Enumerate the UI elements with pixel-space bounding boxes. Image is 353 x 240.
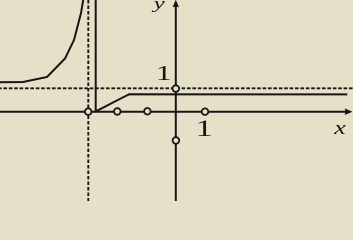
curve right branch (x &gt; -3) xyxy=(96,0,348,111)
curve left branch (x &lt; -3) xyxy=(0,0,83,82)
open circle (-3,0) xyxy=(85,108,92,115)
svg-text:1: 1 xyxy=(156,61,172,85)
open circle (-1,0) xyxy=(144,108,151,115)
vertical dashed asymptote x=-3 xyxy=(87,0,89,201)
x-axis xyxy=(0,111,347,113)
svg-text:1: 1 xyxy=(196,116,213,142)
y-axis xyxy=(175,5,177,201)
open circle (0,-1.25) xyxy=(173,137,180,144)
horizontal dashed asymptote y=1 xyxy=(0,87,353,89)
open circle (-2,0) xyxy=(114,108,121,115)
svg-text:x: x xyxy=(333,118,347,139)
open circle (1,0) xyxy=(202,108,209,115)
open circle (0,1) xyxy=(173,85,180,92)
x-axis arrowhead xyxy=(345,108,353,115)
y-axis arrowhead xyxy=(173,0,179,7)
